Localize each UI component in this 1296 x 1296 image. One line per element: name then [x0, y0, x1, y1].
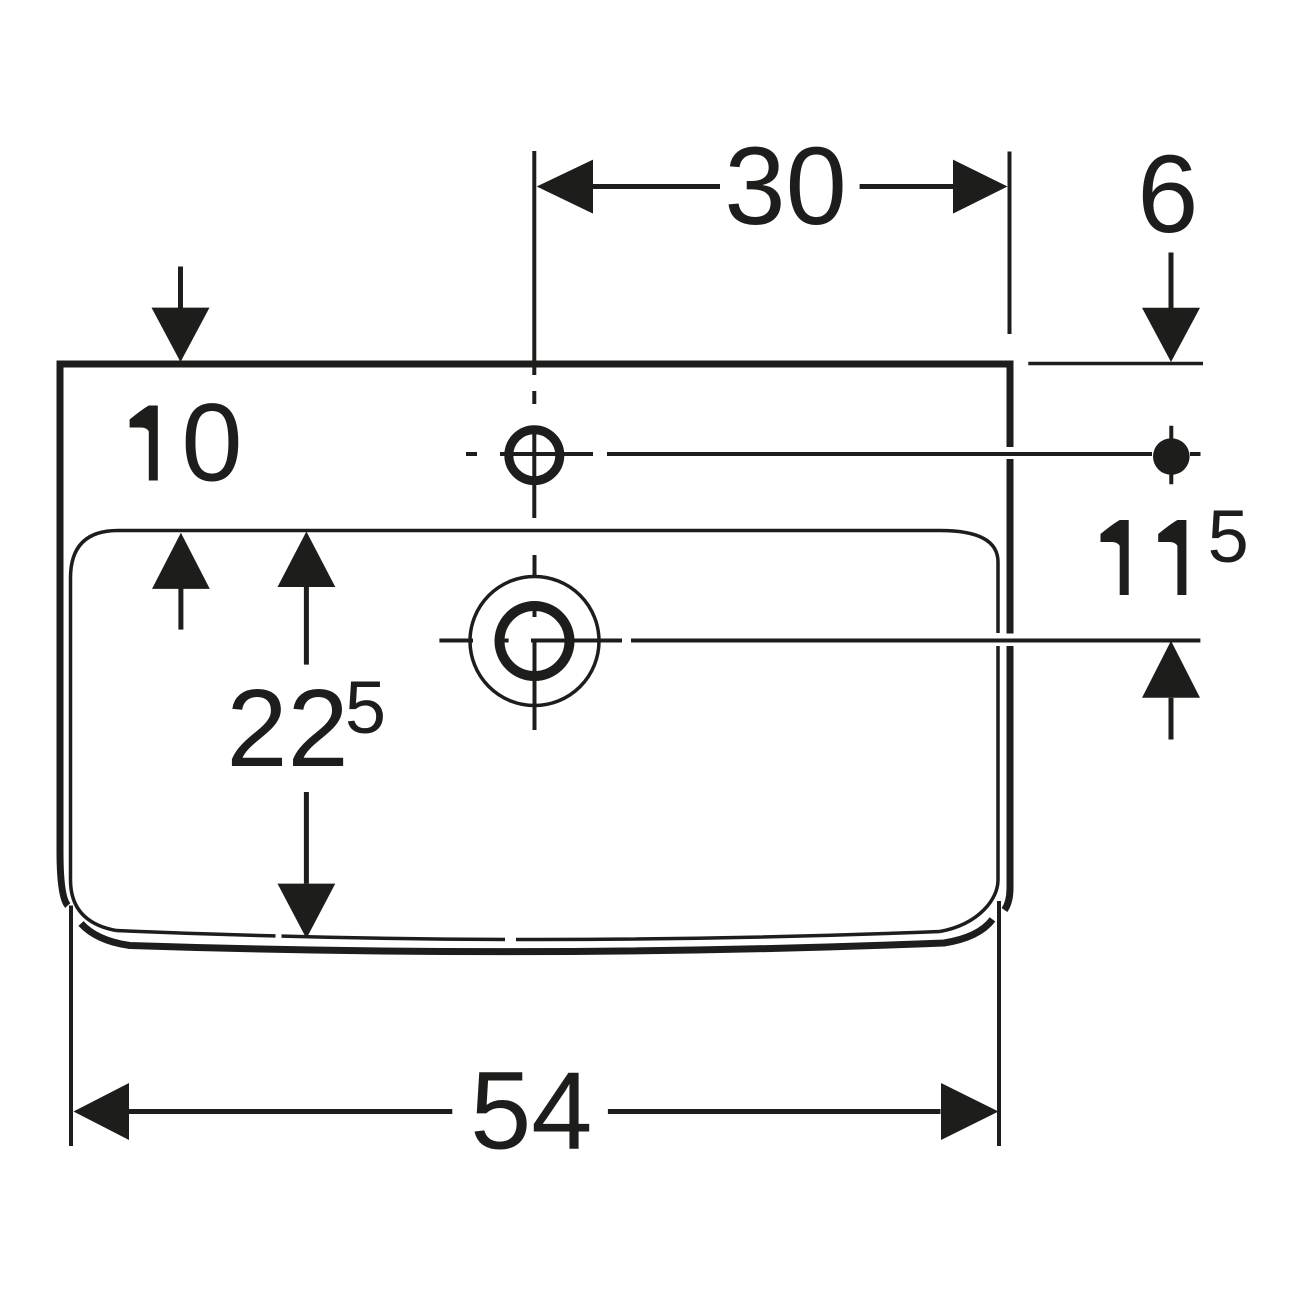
svg-text:0: 0: [181, 382, 242, 505]
svg-text:30: 30: [724, 125, 846, 248]
svg-text:5: 5: [345, 666, 386, 749]
svg-text:6: 6: [1137, 133, 1198, 256]
svg-text:22: 22: [226, 667, 348, 790]
svg-text:54: 54: [470, 1050, 592, 1173]
svg-text:5: 5: [1208, 495, 1249, 578]
